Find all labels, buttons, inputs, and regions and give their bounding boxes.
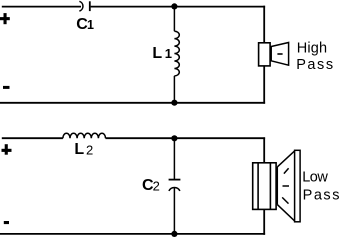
capacitor C1 bbox=[79, 1, 89, 11]
svg-text:High: High bbox=[297, 41, 327, 57]
wire: low-pass bottom return lead bbox=[0, 233, 265, 235]
speaker woofer rim bbox=[295, 150, 301, 222]
wire: low-pass top input lead bbox=[2, 137, 63, 139]
label + bottom input bbox=[2, 144, 12, 155]
speaker tweeter driver bbox=[259, 43, 271, 66]
text High Pass bbox=[296, 41, 334, 73]
label C2 bbox=[142, 177, 160, 194]
speaker tweeter cone bbox=[271, 43, 288, 66]
node: junction L1 bottom bbox=[171, 100, 177, 106]
label L2 bbox=[74, 141, 93, 158]
speaker woofer driver bbox=[253, 163, 276, 210]
speaker woofer cone bbox=[277, 151, 294, 221]
wire: L1 bottom lead bbox=[173, 76, 175, 103]
svg-text:1: 1 bbox=[165, 46, 172, 61]
svg-text:Pass: Pass bbox=[303, 187, 340, 203]
svg-text:L: L bbox=[74, 141, 84, 158]
svg-text:1: 1 bbox=[87, 18, 94, 32]
wire: high-pass top input lead bbox=[2, 6, 81, 8]
label - top input bbox=[3, 86, 10, 89]
wire: C2 top lead bbox=[173, 138, 175, 179]
wire: woofer branch bottom bbox=[263, 209, 265, 234]
wire: tweeter branch bottom bbox=[263, 66, 265, 104]
inductor L2 bbox=[63, 133, 106, 138]
svg-text:2: 2 bbox=[86, 142, 93, 157]
wire: high-pass top rail C1 to speaker branch bbox=[91, 6, 266, 8]
text Low Pass bbox=[302, 169, 340, 203]
wire: C2 bottom lead bbox=[173, 188, 175, 234]
wire: L1 top lead bbox=[173, 7, 175, 32]
wire: low-pass top rail L2 to speaker branch bbox=[106, 137, 266, 139]
capacitor C2 bbox=[169, 180, 181, 191]
label - bottom input bbox=[4, 221, 9, 224]
node: junction C2 top bbox=[171, 135, 177, 141]
node: junction L1 top bbox=[171, 3, 177, 9]
svg-text:Pass: Pass bbox=[296, 57, 334, 73]
wire: high-pass bottom return lead bbox=[0, 102, 265, 104]
wire: woofer branch top bbox=[263, 137, 265, 162]
label + top input bbox=[0, 13, 10, 24]
tweeter minus marking bbox=[277, 53, 282, 55]
svg-text:Low: Low bbox=[302, 169, 328, 185]
label C1 bbox=[76, 16, 94, 33]
label L1 bbox=[152, 45, 172, 62]
svg-text:L: L bbox=[152, 45, 162, 62]
wire: tweeter branch top bbox=[263, 6, 265, 43]
node: junction C2 bottom bbox=[171, 231, 177, 237]
inductor L1 bbox=[174, 31, 179, 76]
svg-text:2: 2 bbox=[153, 178, 160, 193]
woofer cone markings bbox=[282, 168, 289, 203]
